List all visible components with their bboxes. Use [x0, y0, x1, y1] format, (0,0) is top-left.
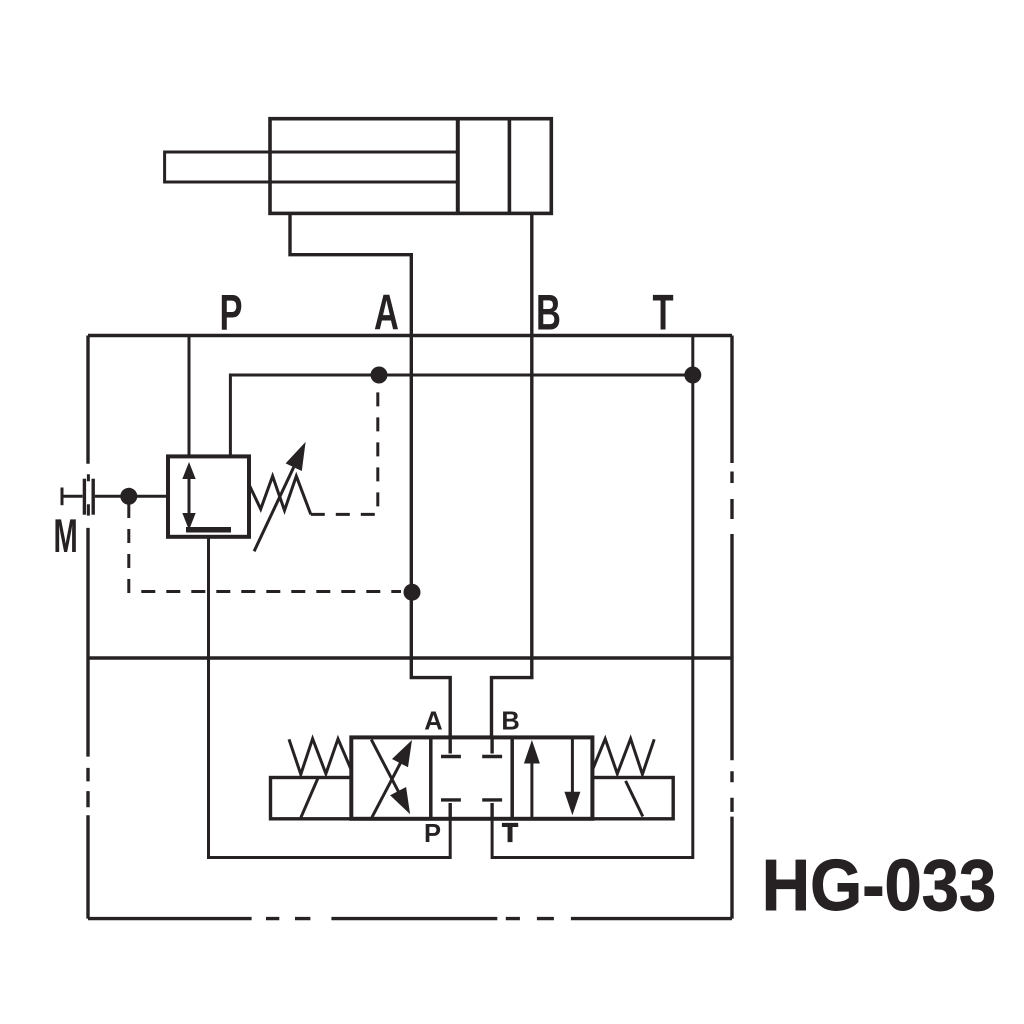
svg-text:P: P	[219, 285, 242, 341]
svg-text:A: A	[374, 285, 399, 341]
svg-text:B: B	[536, 285, 561, 341]
svg-text:B: B	[501, 707, 519, 735]
svg-text:M: M	[53, 511, 77, 563]
svg-text:P: P	[424, 820, 441, 848]
svg-text:T: T	[502, 819, 518, 847]
svg-text:T: T	[652, 285, 673, 341]
svg-text:A: A	[424, 707, 442, 735]
svg-text:HG-033: HG-033	[762, 845, 996, 926]
